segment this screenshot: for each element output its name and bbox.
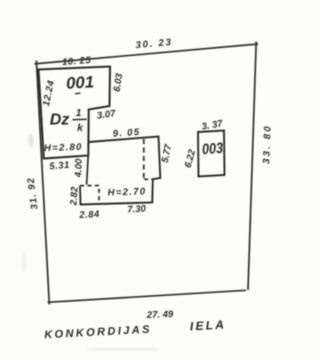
svg-text:9. 05: 9. 05	[112, 127, 140, 140]
svg-text:31. 92: 31. 92	[26, 177, 41, 211]
svg-text:2.82: 2.82	[68, 186, 80, 207]
svg-text:5.77: 5.77	[160, 143, 175, 164]
svg-text:H=2.70: H=2.70	[108, 186, 147, 198]
svg-text:003: 003	[202, 140, 225, 158]
svg-text:2.84: 2.84	[78, 209, 100, 221]
svg-text:001: 001	[66, 73, 95, 92]
svg-text:k: k	[77, 122, 84, 134]
svg-text:6.22: 6.22	[183, 148, 199, 169]
svg-text:KONKORDIJAS: KONKORDIJAS	[44, 324, 152, 342]
svg-text:H=2.80: H=2.80	[44, 142, 83, 154]
svg-text:Dz: Dz	[50, 112, 70, 129]
svg-text:33. 80: 33. 80	[261, 124, 273, 164]
svg-text:10. 25: 10. 25	[62, 55, 92, 68]
svg-text:27. 49: 27. 49	[146, 309, 174, 321]
svg-text:IELA: IELA	[190, 318, 227, 334]
svg-text:6.03: 6.03	[112, 72, 126, 93]
svg-text:12.24: 12.24	[41, 79, 57, 107]
svg-text:7.30: 7.30	[127, 203, 147, 215]
svg-text:4.00: 4.00	[73, 158, 85, 179]
svg-text:30. 23: 30. 23	[135, 37, 173, 51]
svg-text:5.31: 5.31	[49, 160, 70, 173]
svg-text:1: 1	[76, 107, 82, 119]
svg-text:3.07: 3.07	[96, 108, 117, 122]
